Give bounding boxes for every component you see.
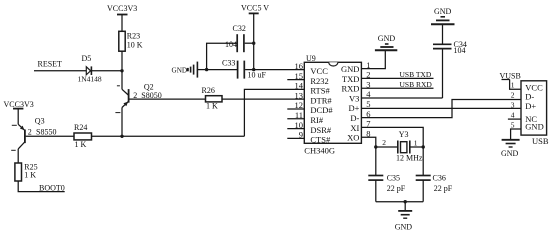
svg-text:VCC3V3: VCC3V3 bbox=[107, 4, 137, 13]
wire Q3 collector down to R25 bbox=[17, 149, 19, 163]
transistor Q3 S8550 bbox=[11, 116, 56, 150]
U9 left pin names bbox=[310, 66, 333, 145]
wire R23 bottom to RESET junction bbox=[121, 51, 123, 71]
junction dot (crystal right / C36) bbox=[422, 145, 425, 148]
U9 left pin stubs (unconnected 15,12,11,10,9) bbox=[287, 80, 304, 139]
svg-text:USB RXD: USB RXD bbox=[400, 80, 433, 89]
power VCC3V3 (top left, above R23) bbox=[107, 4, 137, 31]
ground (above C34) bbox=[431, 7, 455, 24]
wire R25 to BOOT0 bbox=[18, 181, 64, 192]
svg-text:XI: XI bbox=[350, 123, 359, 133]
svg-text:1 K: 1 K bbox=[24, 171, 36, 180]
IC U9 CH340G body bbox=[304, 54, 361, 156]
ground (below USB) bbox=[501, 140, 520, 158]
wire U9 pin1 to GND bbox=[361, 50, 385, 68]
connector USB body bbox=[521, 81, 549, 146]
svg-text:1N4148: 1N4148 bbox=[78, 75, 102, 84]
svg-text:GND: GND bbox=[395, 223, 413, 232]
connector USB pin names bbox=[525, 83, 543, 132]
svg-text:GND: GND bbox=[172, 67, 188, 75]
svg-text:22 pF: 22 pF bbox=[434, 184, 453, 193]
net USB RXD wire (U9 pin3) bbox=[361, 87, 433, 89]
wire junction down to Q2 collector bbox=[121, 71, 123, 90]
svg-text:15: 15 bbox=[295, 71, 304, 81]
connector USB pin numbers bbox=[511, 81, 515, 130]
svg-text:11: 11 bbox=[295, 110, 303, 120]
svg-text:GND: GND bbox=[434, 7, 452, 16]
wire XO (U9 pin8 to crystal left) bbox=[361, 137, 375, 147]
wire riser to C32 row bbox=[207, 43, 237, 69]
capacitor C36 22pF bbox=[416, 147, 453, 202]
crystal Y3 12 MHz bbox=[376, 130, 423, 163]
svg-text:4: 4 bbox=[511, 110, 515, 119]
svg-text:GND: GND bbox=[378, 34, 396, 43]
svg-text:1: 1 bbox=[414, 138, 418, 147]
wire ground to C33 junction bbox=[197, 69, 206, 71]
U9 left pin numbers bbox=[295, 61, 304, 140]
svg-text:5: 5 bbox=[511, 120, 515, 129]
resistor R23 bbox=[119, 31, 143, 51]
resistor R25 bbox=[15, 163, 38, 182]
svg-text:Y3: Y3 bbox=[399, 130, 409, 139]
svg-text:CTS#: CTS# bbox=[310, 135, 331, 145]
wire D+ (U9 pin5 to USB D+) bbox=[361, 107, 521, 109]
svg-text:2: 2 bbox=[28, 127, 32, 136]
svg-text:3: 3 bbox=[511, 101, 515, 110]
wire U9 pin4 V3 to C34 bbox=[361, 97, 442, 99]
svg-text:DTR#: DTR# bbox=[310, 95, 332, 105]
svg-text:10: 10 bbox=[295, 120, 304, 130]
svg-text:1 K: 1 K bbox=[206, 101, 218, 110]
wire VCC row to U9 pin 16 bbox=[254, 69, 305, 71]
wire diode cathode to junction bbox=[91, 70, 122, 72]
junction dot (RESET / R23 / Q2 collector) bbox=[120, 69, 123, 72]
svg-text:R24: R24 bbox=[74, 123, 87, 132]
net label VUSB bbox=[500, 72, 522, 90]
svg-text:R26: R26 bbox=[202, 86, 215, 95]
U9 right pin names bbox=[341, 64, 360, 143]
svg-text:13: 13 bbox=[295, 90, 304, 100]
svg-text:16: 16 bbox=[295, 61, 304, 71]
svg-text:9: 9 bbox=[299, 130, 303, 140]
power VCC3V3 (left, above Q3) bbox=[4, 100, 34, 124]
resistor R26 bbox=[202, 86, 223, 110]
svg-text:TXD: TXD bbox=[342, 74, 359, 84]
resistor R24 bbox=[74, 123, 92, 149]
svg-text:DCD#: DCD# bbox=[310, 105, 333, 115]
svg-text:D+: D+ bbox=[348, 103, 359, 113]
svg-text:Q3: Q3 bbox=[35, 116, 45, 125]
svg-text:GND: GND bbox=[525, 122, 543, 132]
wire USB pin5 to GND bbox=[511, 129, 521, 140]
node RESET bbox=[34, 60, 86, 71]
svg-text:R232: R232 bbox=[310, 76, 328, 86]
wire Q3 base to R24 bbox=[26, 135, 74, 137]
svg-text:104: 104 bbox=[225, 40, 237, 49]
wire caps common bottom bbox=[376, 201, 423, 203]
svg-text:14: 14 bbox=[295, 81, 304, 91]
svg-text:XO: XO bbox=[347, 133, 359, 143]
transistor Q2 S8050 bbox=[115, 82, 161, 112]
svg-text:22 pF: 22 pF bbox=[387, 184, 406, 193]
svg-text:C35: C35 bbox=[387, 174, 400, 183]
svg-text:10 K: 10 K bbox=[127, 41, 143, 50]
svg-text:RESET: RESET bbox=[38, 60, 63, 69]
junction dot (C32 / VCC5V) bbox=[252, 42, 255, 45]
junction dot (GND / C33 / C32 riser) bbox=[205, 68, 208, 71]
svg-text:RXD: RXD bbox=[341, 84, 359, 94]
svg-text:C33: C33 bbox=[222, 59, 235, 68]
svg-text:12 MHz: 12 MHz bbox=[396, 154, 423, 163]
svg-text:BOOT0: BOOT0 bbox=[39, 184, 65, 193]
svg-text:DSR#: DSR# bbox=[310, 125, 332, 135]
capacitor C32 104 bbox=[225, 24, 246, 52]
svg-text:GND: GND bbox=[341, 64, 359, 74]
capacitor C35 22pF bbox=[368, 147, 405, 202]
wire C33 left bbox=[207, 69, 237, 71]
svg-text:CH340G: CH340G bbox=[304, 146, 335, 156]
junction dot (crystal left / C35) bbox=[374, 145, 377, 148]
svg-text:C32: C32 bbox=[233, 24, 246, 33]
wire Q2 base to R26 bbox=[129, 98, 206, 100]
svg-text:VCC3V3: VCC3V3 bbox=[4, 100, 34, 109]
capacitor C34 104 bbox=[433, 24, 467, 98]
capacitor C33 10uF bbox=[222, 59, 267, 80]
svg-text:R23: R23 bbox=[127, 32, 140, 41]
svg-text:GND: GND bbox=[501, 149, 519, 158]
ground (left of C33, horizontal style) bbox=[172, 62, 198, 78]
svg-text:2: 2 bbox=[382, 138, 386, 147]
ground (below crystal caps) bbox=[395, 202, 413, 232]
net USB TXD wire (U9 pin2) bbox=[361, 77, 433, 79]
svg-text:VCC: VCC bbox=[310, 66, 328, 76]
junction dot (caps / GND) bbox=[404, 200, 407, 203]
wire C33 right to VCC5V junction bbox=[245, 69, 254, 71]
svg-text:2: 2 bbox=[511, 91, 515, 100]
power VCC5 V (top middle) bbox=[241, 4, 269, 70]
svg-text:12: 12 bbox=[295, 100, 304, 110]
svg-text:D-: D- bbox=[350, 113, 359, 123]
ground (above U9 pin1) bbox=[375, 34, 397, 50]
USB pin4 NC stub bbox=[508, 118, 521, 120]
wire C32 right to VCC5V line bbox=[245, 42, 254, 44]
wire R26 to U9 pin 13 bbox=[222, 98, 304, 100]
diode D5 1N4148 bbox=[78, 54, 102, 84]
svg-text:10 uF: 10 uF bbox=[248, 71, 267, 80]
svg-text:D+: D+ bbox=[525, 101, 536, 111]
svg-text:5: 5 bbox=[366, 99, 370, 109]
svg-text:D5: D5 bbox=[82, 54, 92, 63]
svg-text:Q2: Q2 bbox=[144, 82, 154, 91]
U9 right pin numbers bbox=[366, 60, 371, 139]
wire XI (U9 pin7 to crystal right) bbox=[361, 127, 423, 147]
wire D- (U9 pin6 to USB D-) bbox=[361, 100, 521, 118]
svg-text:VCC5 V: VCC5 V bbox=[241, 4, 269, 13]
svg-text:1: 1 bbox=[511, 81, 515, 90]
svg-text:S8550: S8550 bbox=[36, 127, 56, 136]
wire bottom row riser to U9 pin 14 bbox=[244, 89, 304, 136]
svg-text:D-: D- bbox=[525, 91, 534, 101]
svg-text:C36: C36 bbox=[433, 174, 446, 183]
svg-text:104: 104 bbox=[454, 46, 466, 55]
svg-text:USB: USB bbox=[532, 136, 549, 146]
svg-text:U9: U9 bbox=[306, 54, 316, 63]
svg-text:V3: V3 bbox=[349, 93, 359, 103]
svg-text:USB TXD: USB TXD bbox=[400, 70, 432, 79]
svg-text:1 K: 1 K bbox=[75, 140, 87, 149]
svg-text:RI#: RI# bbox=[310, 115, 324, 125]
svg-text:RTS#: RTS# bbox=[310, 86, 330, 96]
junction dot (Q2 emitter / R24 row) bbox=[120, 135, 123, 138]
junction dot (C33 / VCC5V / pin16) bbox=[252, 68, 255, 71]
wire Q2 emitter down to bottom row bbox=[121, 108, 123, 137]
wire R24 to pin14 riser corner bbox=[92, 135, 245, 137]
